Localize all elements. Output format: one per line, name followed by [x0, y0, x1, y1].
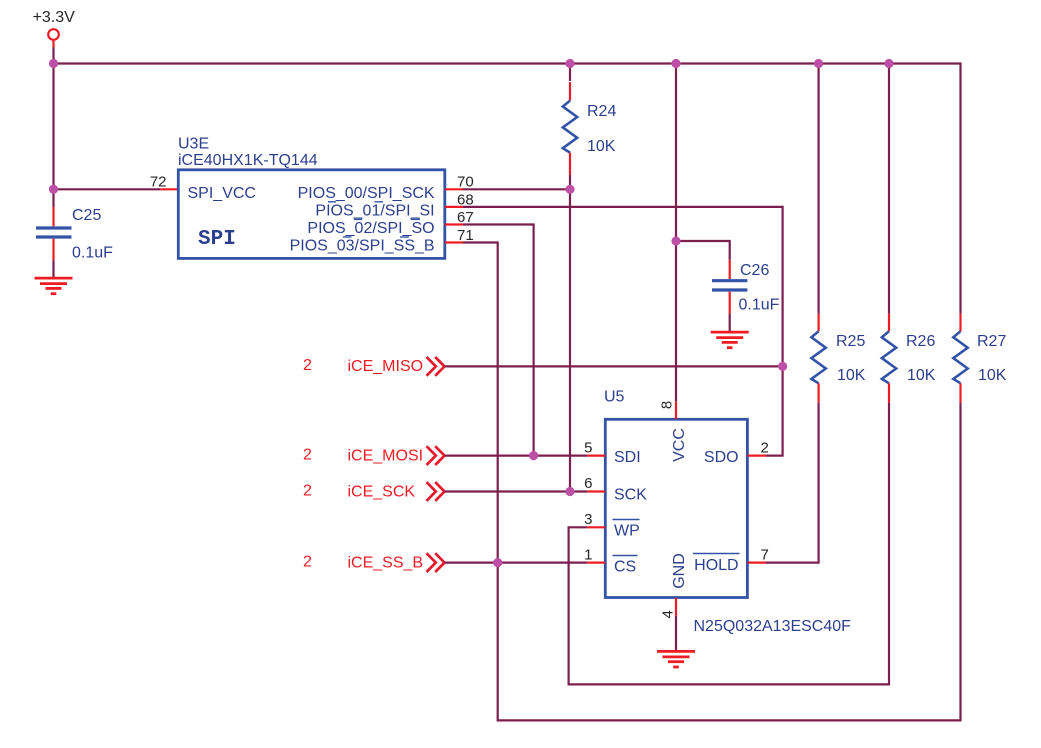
- wire SCK vertical (R24 to SCK pin): [569, 189, 571, 491]
- node bus/R26: [884, 59, 893, 68]
- svg-text:7: 7: [761, 546, 769, 563]
- wire VCC vertical: [675, 64, 677, 402]
- pin stub 1 CS: [587, 561, 605, 563]
- node SCK vertical: [565, 487, 574, 496]
- wire HOLD horizontal: [766, 403, 819, 563]
- svg-text:+3.3V: +3.3V: [33, 9, 76, 26]
- pin stub 6 SCK: [587, 490, 605, 492]
- node pin72/C25: [49, 185, 58, 194]
- svg-text:10K: 10K: [837, 367, 866, 384]
- svg-text:2: 2: [303, 447, 312, 464]
- svg-text:C25: C25: [72, 207, 101, 224]
- pin stub 7 HOLD: [747, 561, 766, 563]
- node bus/R24: [565, 59, 574, 68]
- pin stub 3 WP: [587, 526, 605, 528]
- wire pin68 horizontal: [463, 207, 783, 456]
- svg-text:iCE_MOSI: iCE_MOSI: [348, 448, 424, 465]
- svg-text:R24: R24: [587, 103, 616, 120]
- svg-text:1: 1: [584, 546, 592, 563]
- svg-text:iCE_SCK: iCE_SCK: [348, 484, 416, 501]
- ground C25: [35, 278, 73, 294]
- +3.3V circle terminal: [48, 29, 59, 40]
- svg-text:0.1uF: 0.1uF: [739, 296, 780, 313]
- svg-text:VCC: VCC: [671, 428, 688, 462]
- pin-name overline marks: [328, 202, 420, 237]
- U5 top pin stub (VCC 8): [675, 401, 677, 419]
- svg-text:0.1uF: 0.1uF: [72, 245, 113, 262]
- svg-text:68: 68: [457, 191, 474, 208]
- chevron iCE_MOSI: [427, 446, 445, 465]
- svg-text:iCE_SS_B: iCE_SS_B: [348, 555, 424, 572]
- svg-text:2: 2: [303, 554, 312, 571]
- wire C26 branch horizontal: [676, 241, 730, 260]
- chevron iCE_SCK: [427, 482, 445, 501]
- U5 bottom pin stub (GND 4): [675, 598, 677, 616]
- wire pin67 horizontal: [463, 225, 534, 456]
- flash U5 box: [605, 419, 747, 597]
- svg-text:3: 3: [584, 511, 592, 528]
- svg-text:10K: 10K: [587, 138, 616, 155]
- wire +3.3V to bus: [52, 48, 54, 64]
- node pin70/R24: [565, 185, 574, 194]
- svg-text:2: 2: [761, 439, 769, 456]
- svg-text:U3E: U3E: [178, 136, 209, 153]
- capacitor C25 bottom lead: [52, 239, 54, 261]
- svg-text:5: 5: [584, 439, 592, 456]
- node MISO/SDO: [778, 362, 787, 371]
- resistor R27: [959, 314, 961, 332]
- resistor R25: [817, 64, 819, 314]
- svg-text:HOLD: HOLD: [694, 557, 738, 574]
- chevron iCE_SS_B: [427, 553, 445, 572]
- wire pin71 horizontal: [463, 243, 961, 721]
- svg-text:2: 2: [303, 483, 312, 500]
- svg-text:SCK: SCK: [614, 487, 647, 504]
- ground C26: [711, 332, 749, 348]
- svg-text:SPI: SPI: [198, 228, 236, 251]
- pin stub 2 SDO: [747, 455, 766, 457]
- wire iCE_MOSI: [445, 455, 588, 457]
- node SS_B/pin71: [493, 558, 502, 567]
- resistor R26: [888, 64, 890, 314]
- svg-text:R27: R27: [977, 333, 1006, 350]
- svg-text:67: 67: [457, 209, 474, 226]
- capacitor C26 bottom lead: [729, 292, 731, 314]
- svg-text:PIOS_01/SPI_SI: PIOS_01/SPI_SI: [315, 202, 434, 219]
- pin stub 68 PIOS_01/SPI_SI: [445, 206, 463, 208]
- svg-text:71: 71: [457, 227, 474, 244]
- capacitor C26 top lead: [729, 260, 731, 279]
- svg-text:SDO: SDO: [704, 449, 739, 466]
- node bus/VCC branch: [671, 59, 680, 68]
- +3.3V red stub: [52, 41, 54, 48]
- capacitor C25 top lead: [52, 189, 54, 207]
- svg-text:SDI: SDI: [614, 449, 641, 466]
- wire GND4 lead: [675, 616, 677, 652]
- node bus/R25: [814, 59, 823, 68]
- svg-text:PIOS_00/SPI_SCK: PIOS_00/SPI_SCK: [298, 185, 435, 202]
- wire iCE_MISO: [445, 365, 783, 367]
- svg-text:iCE40HX1K-TQ144: iCE40HX1K-TQ144: [178, 152, 318, 169]
- svg-text:PIOS_03/SPI_SS_B: PIOS_03/SPI_SS_B: [290, 238, 435, 255]
- svg-text:GND: GND: [671, 553, 688, 589]
- FPGA U3E box (iCE40HX1K-TQ144 SPI bank): [178, 170, 445, 259]
- wire WP jog: [569, 403, 889, 685]
- svg-text:70: 70: [457, 174, 474, 191]
- pin stub 67 PIOS_02/SPI_SO: [445, 223, 463, 225]
- svg-text:10K: 10K: [907, 367, 936, 384]
- svg-text:iCE_MISO: iCE_MISO: [348, 358, 424, 375]
- pin stub 71 PIOS_03/SPI_SS_B: [445, 241, 463, 243]
- resistor R24: [569, 64, 571, 82]
- svg-text:N25Q032A13ESC40F: N25Q032A13ESC40F: [694, 618, 852, 635]
- wire iCE_SS_B: [445, 561, 588, 563]
- capacitor C26 plates: [712, 279, 747, 282]
- wire top power bus: [54, 64, 961, 314]
- svg-text:4: 4: [660, 610, 677, 618]
- svg-text:SPI_VCC: SPI_VCC: [188, 185, 256, 202]
- wire pin70 to R24: [463, 188, 570, 190]
- svg-text:2: 2: [303, 357, 312, 374]
- svg-text:U5: U5: [604, 389, 625, 406]
- node bus/+3.3V: [49, 59, 58, 68]
- svg-text:PIOS_02/SPI_SO: PIOS_02/SPI_SO: [307, 220, 434, 237]
- chevron iCE_MISO: [427, 357, 445, 376]
- svg-text:CS: CS: [614, 559, 636, 576]
- pin 72 stub: [160, 188, 178, 190]
- node C26 tap: [671, 236, 680, 245]
- svg-text:72: 72: [150, 174, 167, 191]
- svg-text:8: 8: [659, 401, 676, 409]
- svg-text:C26: C26: [740, 262, 769, 279]
- svg-text:6: 6: [584, 475, 592, 492]
- wire iCE_SCK: [445, 490, 588, 492]
- svg-text:10K: 10K: [978, 367, 1007, 384]
- node MOSI/pin67: [529, 451, 538, 460]
- pin stub 70 PIOS_00/SPI_SCK: [445, 188, 463, 190]
- svg-text:R25: R25: [836, 333, 865, 350]
- svg-text:WP: WP: [614, 523, 640, 540]
- wire pin72 horizontal: [54, 188, 161, 190]
- wire left vertical to pin72 row: [52, 64, 54, 190]
- pin stub 5 SDI: [587, 455, 605, 457]
- svg-text:R26: R26: [906, 333, 935, 350]
- capacitor C25 plates: [36, 226, 72, 229]
- ground U5: [657, 651, 695, 667]
